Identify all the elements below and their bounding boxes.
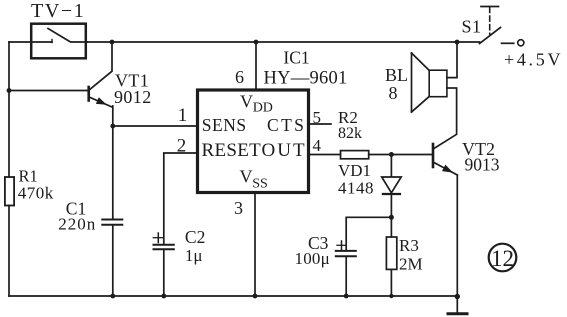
svg-text:SS: SS (252, 177, 268, 192)
svg-text:HY—9601: HY—9601 (264, 69, 348, 89)
svg-text:5: 5 (313, 108, 322, 127)
svg-text:82k: 82k (338, 125, 362, 142)
svg-text:3: 3 (234, 198, 243, 218)
svg-text:+4.5V: +4.5V (504, 50, 563, 70)
svg-text:OUT: OUT (262, 140, 307, 161)
svg-text:SENS: SENS (202, 115, 247, 135)
svg-text:RESET: RESET (202, 140, 262, 161)
svg-text:6: 6 (235, 67, 244, 87)
svg-text:VD1: VD1 (338, 161, 371, 180)
svg-text:S1: S1 (462, 17, 482, 37)
svg-text:470k: 470k (18, 184, 54, 203)
svg-text:9012: 9012 (114, 87, 152, 107)
svg-text:100μ: 100μ (295, 249, 330, 268)
svg-text:2M: 2M (399, 255, 423, 274)
svg-text:1: 1 (178, 105, 188, 126)
svg-text:CTS: CTS (267, 115, 306, 135)
svg-text:4: 4 (313, 136, 322, 155)
svg-text:9013: 9013 (465, 155, 500, 175)
svg-text:2: 2 (177, 136, 187, 157)
svg-text:C2: C2 (185, 227, 205, 247)
svg-text:BL: BL (385, 65, 408, 85)
svg-text:8: 8 (389, 83, 398, 103)
svg-text:12: 12 (491, 246, 514, 271)
svg-text:IC1: IC1 (283, 47, 309, 67)
svg-text:4148: 4148 (338, 179, 374, 198)
svg-text:DD: DD (253, 101, 273, 116)
svg-text:V: V (240, 92, 253, 112)
svg-text:R3: R3 (399, 236, 419, 255)
svg-text:V: V (240, 167, 253, 187)
svg-text:1μ: 1μ (185, 246, 203, 265)
svg-text:220n: 220n (58, 215, 96, 234)
svg-text:TV−1: TV−1 (31, 0, 85, 22)
